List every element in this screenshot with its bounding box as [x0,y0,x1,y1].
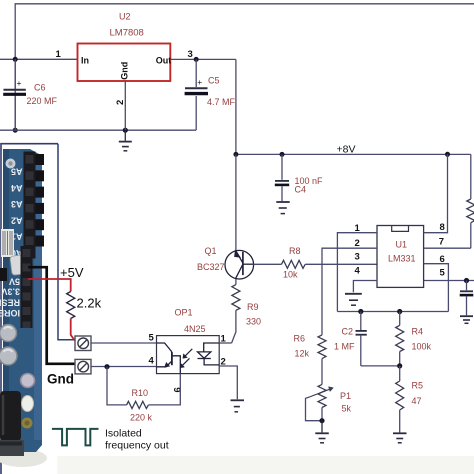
light arrows inside OP1 [180,349,192,368]
wire top rail [15,3,474,5]
svg-text:220 MF: 220 MF [27,96,58,106]
svg-text:Q1: Q1 [205,246,217,256]
wire U1 pin7 [424,247,471,249]
capacitor C5 [185,59,236,130]
power header [21,246,33,328]
terminal block T2 [75,359,91,374]
node C3 junction [464,278,469,283]
svg-text:A5: A5 [11,167,23,177]
wire +8V to Q1 [235,154,237,251]
analog pin labels mirrored [11,167,23,259]
IC U1 box [377,226,424,288]
capacitor C3 [460,281,474,316]
wire U1 pin8 to +8V [424,154,448,232]
node ground junction under U2 [123,128,128,133]
electrolytic capacitor 1 [0,325,17,342]
wire +8V rail [236,153,471,155]
svg-text:C5: C5 [208,75,220,85]
svg-text:5: 5 [149,333,155,344]
transistor Q1 [225,250,254,279]
svg-text:LM7808: LM7808 [110,28,144,39]
photo frame interior [2,144,58,474]
svg-text:3: 3 [355,251,360,262]
svg-text:8: 8 [440,222,445,233]
resistor R6 [294,334,327,385]
PCB blue board [3,149,42,452]
svg-text:2: 2 [115,100,126,105]
svg-text:R9: R9 [247,302,259,312]
resistor R9 [232,279,261,343]
svg-text:Out: Out [156,55,172,65]
svg-text:4.7 MF: 4.7 MF [207,97,236,107]
svg-text:5: 5 [440,267,446,278]
resistor R4 [396,312,432,366]
optocoupler OP1 box [157,336,220,374]
potentiometer P1 [306,384,352,420]
wire black Gnd from Arduino to T2 [28,267,75,364]
ground P1 [315,421,329,443]
ground C3 [460,316,473,323]
barcode sticker [1,229,14,257]
analog header A5-A0 [24,152,45,259]
shadow under board [0,449,47,467]
svg-text:3: 3 [188,49,193,60]
wire OP1 pin1 to R9 [219,342,231,344]
node input junction [13,57,18,62]
gray circle component [21,374,35,388]
wire red +5V lower [71,319,75,341]
wire U2 out [170,58,236,60]
svg-text:+8V: +8V [337,143,356,155]
wire T2 to OP1 pin4 [91,366,157,368]
wire lower rail [337,311,448,313]
node C6 bottom junction [13,128,18,133]
resistor R10 [107,367,180,423]
wire left vertical [14,3,16,130]
svg-text:100k: 100k [412,342,432,352]
ground under C4 [276,202,289,214]
ground U1 pin4 [345,294,362,305]
ground R5 [393,433,407,443]
svg-text:3.3V: 3.3V [1,287,20,297]
node C5 top junction [194,57,199,62]
USB connector [0,440,24,456]
wire U2 pin 2 [124,81,126,130]
electrolytic capacitor 2 [0,347,17,365]
oscillator metal can [10,255,26,276]
wire T1 to OP1 pin5 [91,342,157,344]
svg-text:R5: R5 [412,381,424,391]
svg-text:10k: 10k [283,270,298,280]
svg-text:5k: 5k [342,404,352,414]
svg-text:U1: U1 [396,240,408,250]
wire OP1 pin2 to ground [219,366,237,399]
photo frame border [1,144,58,474]
LED inside OP1 [198,343,220,365]
svg-text:A2: A2 [11,215,23,225]
svg-text:4: 4 [149,356,155,367]
svg-text:Isolated: Isolated [105,428,142,440]
resistor 2.2k [67,292,102,319]
wire frame edge to T1 [58,144,75,340]
regulator U2 box [78,44,171,82]
svg-text:IOREF: IOREF [0,308,20,318]
node R4 top [397,309,402,314]
svg-text:+: + [17,78,22,88]
svg-text:12k: 12k [295,349,310,359]
svg-text:7: 7 [439,236,444,247]
svg-text:R10: R10 [132,388,149,398]
resistor R8 [253,246,377,280]
capacitor C6 [3,59,57,130]
svg-text:C6: C6 [34,83,46,93]
svg-text:5V: 5V [9,277,20,287]
Arduino board photo [0,144,58,474]
wire U1 pin5 [424,280,474,282]
svg-text:Gnd: Gnd [120,62,130,80]
svg-text:RESET: RESET [0,298,20,308]
phototransistor inside OP1 [157,343,181,374]
svg-text:+5V: +5V [60,265,84,280]
svg-text:C2: C2 [342,327,354,337]
waveform isolated frequency out [52,429,99,446]
svg-text:1: 1 [56,49,62,60]
svg-text:In: In [81,55,89,65]
ground OP1 pin2 [231,400,245,412]
svg-text:OP1: OP1 [175,308,193,318]
svg-text:Gnd: Gnd [47,372,74,387]
svg-text:LM331: LM331 [388,254,416,264]
wire C2 bottom to R4/R5 node [361,365,400,367]
terminal block T1 [75,336,91,351]
barrel jack [0,391,21,441]
svg-text:C4: C4 [295,185,307,195]
svg-text:P1: P1 [340,391,351,401]
node R10 junction [104,364,109,369]
mounting hole top [6,159,16,169]
gold pad [22,418,33,429]
svg-text:A3: A3 [11,199,23,209]
capacitor C2 [334,312,367,366]
resistor R5 [396,366,423,433]
svg-text:BC327: BC327 [197,262,225,272]
wire vertical out to +8V rail [235,59,237,154]
small black chip left [0,268,7,281]
svg-text:4N25: 4N25 [184,324,206,334]
svg-text:R4: R4 [412,327,424,337]
node P1 bottom junction [319,418,324,423]
svg-text:R6: R6 [294,334,306,344]
wire U1 pin6 [424,264,449,312]
resistor R7 right edge [467,154,474,248]
wire U1 pin1 [337,233,377,312]
wire U1 pin4 [353,281,377,293]
svg-text:frequency out: frequency out [105,440,169,452]
wire input to U2 pin 1 [0,58,78,60]
svg-text:2.2k: 2.2k [77,296,102,311]
wire ground rail left [0,129,196,131]
svg-text:6: 6 [173,387,184,392]
svg-text:1 MF: 1 MF [334,342,355,352]
node pin8 rail junction [445,152,450,157]
node rail left [233,152,238,157]
svg-text:220 k: 220 k [130,413,153,423]
wire U1 pin2 [322,248,377,335]
ground under U2 [119,130,132,151]
node C4 junction [280,152,285,157]
svg-text:47: 47 [412,396,422,406]
svg-text:330: 330 [246,317,261,327]
svg-text:R8: R8 [289,246,301,256]
node R4 R5 junction [397,363,402,368]
svg-text:4: 4 [355,266,361,277]
svg-text:A4: A4 [11,183,23,193]
svg-text:U2: U2 [119,12,131,22]
notch U1 [392,226,409,232]
svg-text:+: + [197,77,202,87]
node C2 top [358,309,363,314]
capacitor C4 [275,154,323,201]
svg-text:2: 2 [355,238,360,249]
power pin labels mirrored [0,277,20,319]
white oval component [22,396,34,412]
wire red +5V upper [28,279,71,292]
